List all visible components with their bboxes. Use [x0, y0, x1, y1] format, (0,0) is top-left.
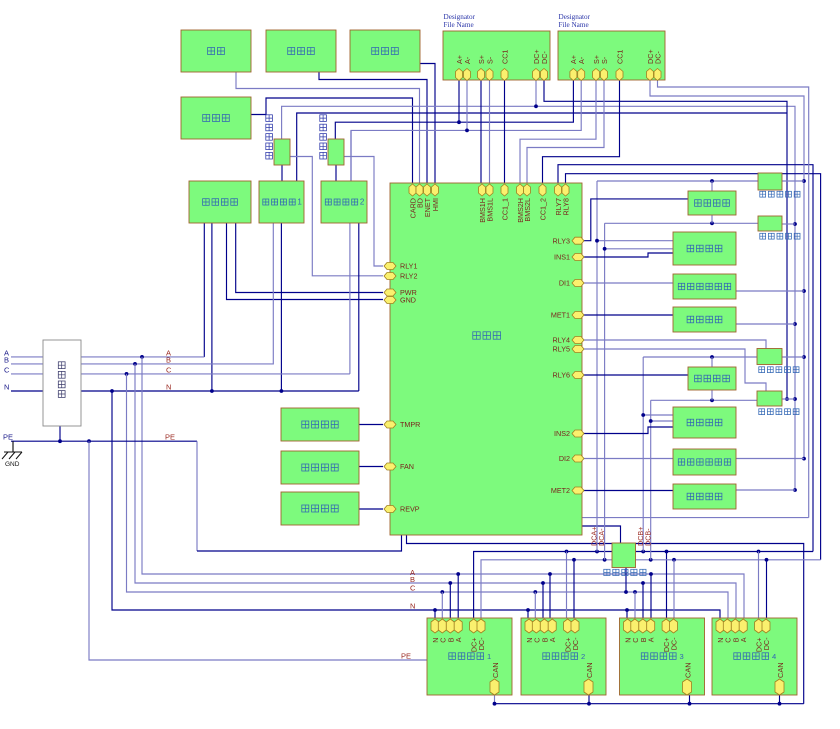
- wire contactorB-RLY1: [344, 157, 383, 267]
- svg-text:S-: S-: [485, 56, 494, 64]
- wire 辅助电源1 bus: [297, 113, 787, 183]
- junction: [603, 558, 607, 562]
- junction: [624, 590, 628, 594]
- svg-text:DC-: DC-: [540, 51, 549, 64]
- svg-text:CAN: CAN: [491, 662, 500, 678]
- block 触摸屏: [350, 30, 420, 72]
- svg-text:S-: S-: [600, 56, 609, 64]
- wire conn2 S- to BMS2L: [527, 80, 604, 183]
- module 整流模块1: [427, 618, 512, 695]
- wire B trunk: [135, 364, 736, 620]
- wire DCB- row: [651, 399, 757, 401]
- svg-text:A: A: [548, 637, 557, 642]
- block 风扇控制: [281, 451, 359, 484]
- contactor 直流接触器 T1: [758, 173, 800, 197]
- wire DC- rail: [481, 560, 821, 620]
- svg-text:1: 1: [487, 652, 491, 661]
- junction: [133, 362, 137, 366]
- svg-text:RLY8: RLY8: [562, 198, 571, 215]
- wire CAN m3: [689, 695, 691, 704]
- svg-text:TMPR: TMPR: [400, 420, 420, 429]
- wire PE line: [11, 440, 197, 442]
- net label A left: [4, 349, 9, 358]
- wire to ground: [12, 441, 14, 452]
- net label PE left: [3, 433, 13, 442]
- svg-text:DC-: DC-: [571, 637, 580, 650]
- svg-text:BMS1L: BMS1L: [486, 198, 495, 222]
- module 整流模块3: [620, 618, 705, 695]
- wire 辅助电源1 N: [280, 223, 282, 391]
- svg-text:File Name: File Name: [559, 21, 589, 29]
- wire contactorA-辅助电源1: [281, 165, 283, 183]
- wire A trunk: [142, 357, 744, 620]
- junction: [710, 221, 714, 225]
- junction: [125, 372, 129, 376]
- svg-text:RLY4: RLY4: [553, 336, 570, 345]
- svg-text:PE: PE: [401, 652, 411, 661]
- wire CAN m4: [779, 695, 781, 704]
- junction: [210, 389, 214, 393]
- block 电源模块: [189, 181, 251, 223]
- svg-text:PE: PE: [3, 433, 13, 442]
- wire phase A line: [11, 356, 204, 358]
- net label A mid: [166, 348, 171, 357]
- wire DCB- vertical: [650, 400, 652, 560]
- svg-text:DCA-: DCA-: [597, 528, 606, 546]
- wire A- bus: [351, 80, 581, 183]
- wire CAN bus: [495, 703, 804, 705]
- svg-text:INS2: INS2: [554, 429, 570, 438]
- svg-text:C: C: [4, 366, 10, 375]
- junction: [688, 702, 692, 706]
- wire T1 right: [782, 180, 804, 182]
- net label N mid: [166, 382, 171, 391]
- wire conn2 DC+ bus: [650, 80, 804, 459]
- svg-text:CAN: CAN: [776, 662, 785, 678]
- junction: [140, 355, 144, 359]
- net label PE mid: [165, 433, 175, 442]
- svg-text:Designator: Designator: [444, 13, 476, 21]
- svg-text:INS1: INS1: [554, 253, 570, 262]
- block 绝缘监测: [673, 407, 736, 438]
- wire 直流接触器 bottom: [625, 567, 627, 592]
- svg-text:DC-: DC-: [653, 51, 662, 64]
- svg-text:DC-: DC-: [762, 637, 771, 650]
- wire m2 B riser: [542, 583, 544, 620]
- block 读卡器: [181, 97, 251, 139]
- wire 湿度检测-TMPR: [359, 424, 383, 426]
- svg-text:RLY3: RLY3: [553, 236, 570, 245]
- block 电能测量: [673, 307, 736, 332]
- wire DCA+ row: [597, 180, 758, 182]
- net label DCB+: [636, 527, 645, 546]
- wire 电源模块 N: [211, 223, 213, 391]
- svg-text:C: C: [410, 584, 416, 593]
- wire contactorB-辅助电源2: [335, 165, 337, 183]
- junction: [625, 608, 629, 612]
- svg-text:PE: PE: [165, 433, 175, 442]
- wire board to 直流接触器: [582, 526, 621, 543]
- wire contactorA-RLY2: [290, 157, 383, 276]
- junction: [802, 355, 806, 359]
- svg-text:DC-: DC-: [670, 637, 679, 650]
- block 辅助电源2: [321, 181, 367, 223]
- svg-text:N: N: [166, 382, 171, 391]
- wire RLY6: [583, 374, 688, 376]
- svg-text:BMS2L: BMS2L: [523, 198, 532, 222]
- block 电能测量: [673, 484, 736, 509]
- wire conn2 S+ to BMS2H: [520, 80, 596, 183]
- wire DI1: [583, 282, 673, 284]
- wire m2 A riser: [549, 574, 551, 620]
- block 绝缘监测: [673, 232, 736, 265]
- wire 读卡器-CARD: [251, 98, 413, 183]
- net label DCA-: [597, 528, 606, 546]
- svg-text:C: C: [166, 365, 172, 374]
- svg-text:File Name: File Name: [444, 21, 474, 29]
- wire DCB+ vertical: [642, 357, 644, 552]
- wire m1 A riser: [457, 574, 459, 620]
- wire 绝缘监测1 stub top: [597, 240, 673, 242]
- svg-text:3: 3: [680, 652, 684, 661]
- svg-text:CAN: CAN: [585, 662, 594, 678]
- block 防雷模块: [43, 340, 81, 426]
- wire conn1 S+ to BMS1H: [480, 80, 482, 183]
- wire 辅助电源2 N: [358, 223, 360, 391]
- svg-text:1: 1: [297, 198, 302, 207]
- junction: [87, 439, 91, 443]
- net label B left: [4, 356, 9, 365]
- net label N bottom: [410, 602, 415, 611]
- svg-text:2: 2: [581, 652, 585, 661]
- wire 绝缘监测2 stub a: [643, 414, 673, 416]
- svg-text:4: 4: [772, 652, 776, 661]
- wire DCA- vertical: [604, 223, 606, 560]
- net label C left: [4, 366, 10, 375]
- block 泄放电路: [688, 367, 736, 390]
- wire 泄放电路1 top: [711, 181, 713, 191]
- module 整流模块2: [521, 618, 606, 695]
- junction: [465, 129, 469, 133]
- junction: [802, 457, 806, 461]
- net label N left: [4, 383, 9, 392]
- junction: [785, 397, 789, 401]
- junction: [603, 247, 607, 251]
- svg-text:FAN: FAN: [400, 462, 414, 471]
- wire CAN m2: [588, 695, 590, 704]
- wire 触摸屏-HMI: [420, 64, 435, 184]
- wire conn1 A+ drop: [458, 80, 460, 122]
- junction: [448, 581, 452, 585]
- junction: [595, 239, 599, 243]
- net label B bottom: [410, 575, 415, 584]
- svg-text:CC1: CC1: [500, 50, 509, 64]
- svg-text:RLY1: RLY1: [400, 262, 417, 271]
- wire CAN m1 drop: [494, 694, 496, 704]
- wire m3 A riser: [650, 574, 652, 620]
- junction: [649, 558, 653, 562]
- svg-text:DC-: DC-: [477, 637, 486, 650]
- wire m3 DC- riser: [673, 560, 675, 619]
- junction: [793, 322, 797, 326]
- ground: [2, 452, 22, 468]
- wire neutral N line: [11, 390, 359, 392]
- wire m4 DC+ riser: [758, 552, 760, 620]
- wire 北斗-BD: [236, 72, 420, 183]
- junction: [440, 590, 444, 594]
- wire 泄放电路2 top: [711, 357, 713, 367]
- junction: [710, 179, 714, 183]
- junction: [802, 179, 806, 183]
- svg-text:DCB-: DCB-: [643, 528, 652, 546]
- wire 风扇控制-FAN: [359, 466, 383, 468]
- svg-text:A: A: [739, 637, 748, 642]
- svg-text:CC1: CC1: [615, 50, 624, 64]
- wire 电源模块 PWR: [236, 223, 383, 293]
- connector gun1 Designator/File Name: [443, 13, 550, 81]
- net label C bottom: [410, 584, 416, 593]
- junction: [793, 397, 797, 401]
- wire RLY8 run: [566, 174, 821, 560]
- svg-text:A: A: [454, 637, 463, 642]
- svg-text:CC1_1: CC1_1: [501, 198, 510, 220]
- wire m1 B riser: [449, 583, 451, 620]
- block 湿度检测: [281, 408, 359, 441]
- svg-text:RLY5: RLY5: [553, 345, 570, 354]
- wire RLY3 to 泄放电路1: [583, 199, 688, 241]
- wire m2 C riser: [534, 592, 536, 620]
- junction: [572, 558, 576, 562]
- junction: [456, 572, 460, 576]
- wire DC+ rail: [474, 552, 813, 621]
- wire 辅助电源2 top feed: [350, 130, 352, 183]
- wire conn1 CC1 to CC1_1: [504, 80, 506, 183]
- net label B mid: [166, 355, 171, 364]
- junction: [587, 702, 591, 706]
- svg-text:DI1: DI1: [559, 279, 570, 288]
- svg-text:B: B: [4, 356, 9, 365]
- wire conn1 A- drop: [466, 80, 468, 130]
- svg-text:RLY6: RLY6: [553, 371, 570, 380]
- junction: [565, 550, 569, 554]
- block 辅助电源1: [259, 181, 304, 223]
- wire 电源模块 A: [203, 223, 205, 357]
- junction: [533, 590, 537, 594]
- block 泄放电路: [688, 191, 736, 215]
- wire INS1: [583, 253, 673, 257]
- wire 以太网-ENET: [319, 72, 427, 183]
- junction: [633, 590, 637, 594]
- svg-text:A-: A-: [463, 56, 472, 64]
- wire T3 right: [782, 356, 804, 358]
- wire m2 DC+ riser: [566, 552, 568, 621]
- junction: [457, 120, 461, 124]
- contactor 直流接触器 T2: [758, 216, 800, 239]
- block 反接保护: [281, 492, 359, 525]
- junction: [649, 572, 653, 576]
- net label C mid: [166, 365, 172, 374]
- junction: [665, 550, 669, 554]
- main board 主控板: [384, 183, 584, 535]
- wire DC- gun1 bus: [544, 80, 787, 399]
- junction: [110, 389, 114, 393]
- wire DI2 and 车侧电压检测2 out: [583, 458, 804, 460]
- junction: [672, 558, 676, 562]
- wire 车侧电压检测1 out: [736, 290, 804, 292]
- block 车侧电压检测: [673, 449, 736, 475]
- junction: [493, 702, 497, 706]
- wire phase C line: [11, 373, 350, 375]
- block 北斗: [181, 30, 251, 72]
- wire m3 B riser: [642, 583, 644, 620]
- wire DCA- row: [605, 222, 758, 224]
- wire 辅助电源1 B: [272, 223, 274, 365]
- junction: [641, 581, 645, 585]
- wire T4 right: [782, 398, 795, 400]
- svg-text:REVP: REVP: [400, 505, 420, 514]
- wire m4 DC- riser: [766, 560, 768, 619]
- svg-text:Designator: Designator: [559, 13, 591, 21]
- svg-text:A-: A-: [577, 56, 586, 64]
- svg-text:N: N: [410, 602, 415, 611]
- wire C trunk: [127, 374, 729, 620]
- junction: [641, 550, 645, 554]
- wire 绝缘监测1 stub: [605, 248, 673, 250]
- wire DCB+ row: [643, 356, 757, 358]
- wire PE to board: [197, 535, 402, 551]
- wire 防雷模块 earth: [59, 426, 61, 441]
- wire board CAN run: [407, 535, 804, 704]
- wire conn2 CC1 to CC1_2: [543, 80, 620, 183]
- wire 电能测量1 out: [736, 323, 795, 325]
- junction: [548, 572, 552, 576]
- junction: [433, 608, 437, 612]
- contactor 直流接触器 C5: [604, 543, 646, 576]
- svg-text:MET2: MET2: [551, 486, 570, 495]
- wire MET2: [583, 490, 673, 492]
- junction: [793, 222, 797, 226]
- junction: [757, 550, 761, 554]
- wire PE trunk: [89, 441, 427, 660]
- junction: [641, 413, 645, 417]
- junction: [802, 289, 806, 293]
- contactor 直流接触器 T3: [757, 349, 799, 373]
- wire m2 N riser: [527, 610, 529, 620]
- wire 绝缘监测2 stub b: [651, 420, 673, 422]
- svg-text:CC1_2: CC1_2: [539, 198, 548, 220]
- svg-text:HMI: HMI: [431, 198, 440, 211]
- wire INS2: [583, 427, 673, 434]
- wire conn2 DC- bus: [658, 80, 809, 518]
- wire 辅助电源2 C: [349, 223, 351, 374]
- net label PE bottom: [401, 652, 411, 661]
- wire DCA+ vertical: [596, 181, 598, 552]
- net label DCB-: [643, 528, 652, 546]
- wire 反接保护-REVP: [359, 508, 383, 510]
- net label DCA+: [590, 527, 599, 546]
- wire m1 C riser: [441, 592, 443, 620]
- wire A+ bus: [335, 80, 573, 139]
- module 整流模块4: [712, 618, 797, 695]
- wire 电源模块 GND: [227, 223, 384, 300]
- block 以太网: [266, 30, 336, 72]
- wire m3 C riser: [634, 592, 636, 620]
- junction: [710, 398, 714, 402]
- wire DC+ gun1 bus: [282, 106, 795, 490]
- svg-text:MET1: MET1: [551, 311, 570, 320]
- junction: [541, 581, 545, 585]
- connector gun2 Designator/File Name: [558, 13, 665, 81]
- wire m2 DC- riser: [573, 560, 575, 620]
- svg-text:CAN: CAN: [683, 662, 692, 678]
- wire m1 N riser: [434, 610, 436, 620]
- wire 泄放电路2 bottom: [711, 390, 713, 400]
- junction: [649, 419, 653, 423]
- junction: [58, 439, 62, 443]
- block 车侧电压检测: [673, 274, 736, 299]
- wire T2 right: [782, 223, 795, 225]
- wire MET1: [583, 314, 673, 316]
- wire RLY7 run: [558, 165, 813, 552]
- wire RLY4 to T3: [583, 340, 766, 349]
- junction: [778, 702, 782, 706]
- wire 泄放电路1 bottom: [711, 215, 713, 223]
- svg-text:N: N: [4, 383, 9, 392]
- junction: [526, 608, 530, 612]
- wire phase B line: [11, 363, 273, 365]
- contactor 直流接触器 T4: [757, 391, 799, 415]
- wire PE drop: [196, 441, 198, 551]
- net label A bottom: [410, 568, 415, 577]
- contactor 直流接触器 A: [266, 115, 290, 165]
- wire 电能测量2 out: [736, 489, 795, 491]
- wire board edge row 517: [582, 517, 809, 519]
- wire RLY5 to T4: [583, 349, 766, 391]
- junction: [710, 355, 714, 359]
- junction: [793, 488, 797, 492]
- svg-text:RLY2: RLY2: [400, 272, 417, 281]
- junction: [595, 550, 599, 554]
- svg-text:GND: GND: [5, 461, 20, 468]
- wire conn1 S- to BMS1L: [489, 80, 491, 183]
- svg-text:2: 2: [360, 198, 365, 207]
- wire conn1 DC+ drop: [535, 80, 537, 106]
- wire N trunk: [112, 391, 720, 620]
- contactor 直流接触器 B: [320, 115, 344, 165]
- svg-text:B: B: [166, 355, 171, 364]
- svg-text:DI2: DI2: [559, 454, 570, 463]
- wire m3 N riser: [626, 610, 628, 620]
- svg-text:A: A: [647, 637, 656, 642]
- junction: [765, 558, 769, 562]
- junction: [280, 389, 284, 393]
- junction: [534, 104, 538, 108]
- wire m3 DC+ riser: [666, 552, 668, 620]
- svg-text:GND: GND: [400, 296, 416, 305]
